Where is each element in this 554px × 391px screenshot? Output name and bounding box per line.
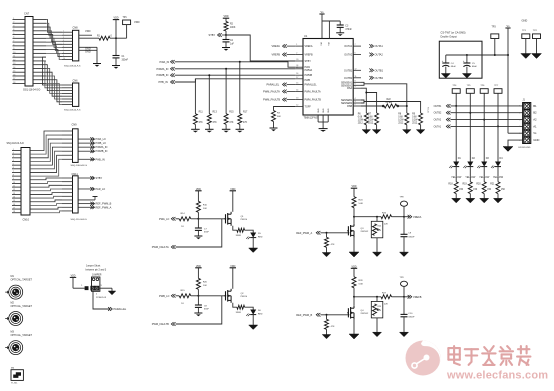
junction gate RC node [197, 295, 199, 297]
ground under C8 [194, 307, 202, 316]
wire drop to R13 [208, 75, 210, 114]
svg-text:REF_PWM_A: REF_PWM_A [296, 231, 312, 235]
svg-text:OPTICAL_TARGET: OPTICAL_TARGET [11, 279, 33, 282]
svg-text:OUTA1: OUTA1 [434, 125, 442, 128]
wire RSA to sense resistors [361, 88, 377, 113]
svg-text:1: 1 [63, 31, 64, 33]
junction at R15 drop [225, 68, 227, 70]
svg-text:OPTICAL_TARGET: OPTICAL_TARGET [11, 334, 33, 337]
svg-text:PARALLEL: PARALLEL [305, 84, 318, 87]
resistor R10 10K [196, 201, 207, 219]
svg-text:17: 17 [13, 78, 15, 80]
svg-text:2: 2 [13, 22, 14, 24]
svg-text:8: 8 [355, 80, 356, 82]
wire R12 to D5 [245, 230, 254, 232]
ground under R21 [494, 194, 503, 203]
svg-text:PARALLEL: PARALLEL [114, 307, 127, 311]
svg-text:0.68: 0.68 [368, 117, 373, 119]
svg-text:5: 5 [355, 86, 356, 88]
svg-text:22K: 22K [384, 303, 388, 305]
net label PHB_IN [159, 80, 175, 84]
test point TP11 GND [521, 30, 531, 58]
wire bundle CN10 to CN9 [30, 131, 62, 176]
svg-text:1: 1 [13, 149, 14, 151]
svg-text:PMOS: PMOS [241, 219, 248, 221]
wire GND J1 pin6 [503, 140, 523, 151]
resistor R20 10K [196, 278, 207, 296]
svg-text:PCB02-03: PCB02-03 [96, 297, 107, 299]
ground under pulldown [322, 247, 331, 256]
resistor R12 330R [236, 228, 245, 237]
svg-text:OUTB1: OUTB1 [434, 106, 442, 108]
svg-text:PWM_FAULTB: PWM_FAULTB [152, 322, 169, 326]
wire bundle CN7 to CN6 [43, 57, 63, 104]
power flag Vs above U1 [319, 11, 340, 21]
U1 right pin stubs and labels [341, 44, 361, 108]
svg-text:A1: A1 [533, 124, 537, 128]
LED D3 YELLOW [477, 157, 490, 179]
svg-text:GND: GND [522, 19, 528, 23]
connector CN9 (SSQ-108-04-F-S) [62, 122, 87, 167]
svg-text:47K: 47K [229, 122, 234, 124]
svg-text:2N7002: 2N7002 [361, 231, 369, 233]
ground under C2 [222, 42, 230, 51]
ground stub at CN11 pin7 [78, 196, 97, 200]
svg-text:VDD: VDD [134, 20, 140, 24]
net label VREFB [404, 295, 422, 299]
svg-text:2: 2 [296, 53, 297, 55]
svg-text:R15: R15 [229, 112, 234, 114]
transistor Q4 2N7002 [347, 297, 369, 320]
net label STBY at CN11 [78, 176, 102, 180]
net label VREFA [404, 215, 422, 219]
resistor pulldown 47K [325, 315, 336, 330]
wire bundle CN10 to CN11 [30, 178, 62, 213]
svg-text:68uF: 68uF [472, 66, 478, 68]
net label PWB_LC at CN9 [78, 141, 106, 145]
wire drop to R11 [194, 79, 196, 114]
test point TP3 Vs [491, 27, 499, 56]
capacitor C9 330nF [401, 217, 416, 239]
connector CN11 (SSQ-110-04-F-S) [62, 172, 87, 221]
power flag VDD above R20 [195, 265, 201, 279]
svg-text:VREFB: VREFB [305, 54, 314, 57]
net label PARALLEL at U1 [267, 83, 296, 87]
ground under C10 [400, 317, 409, 337]
svg-text:CS-TWT (or CA-DM5): CS-TWT (or CA-DM5) [441, 31, 466, 35]
svg-text:REF_PWM_A: REF_PWM_A [96, 205, 112, 209]
svg-text:17: 17 [13, 207, 15, 209]
LED D6 RED [246, 310, 263, 317]
svg-text:22K: 22K [384, 223, 388, 225]
svg-text:PARALLEL: PARALLEL [267, 83, 280, 87]
svg-text:VREFA: VREFA [413, 215, 422, 219]
ground under R19 [466, 194, 475, 203]
svg-text:PWA_LC: PWA_LC [159, 217, 170, 221]
ground under R8 [403, 125, 412, 134]
test point TP6 [480, 85, 488, 93]
net label OUTB2 wire to J1 [434, 111, 523, 115]
svg-text:Double Output: Double Output [441, 34, 458, 38]
net label STBY input [209, 33, 227, 37]
svg-text:PHB_IN: PHB_IN [159, 80, 168, 84]
resistor R17 47K [238, 112, 248, 125]
svg-text:330R: 330R [236, 312, 242, 314]
svg-text:1uF: 1uF [230, 43, 235, 45]
net label PWMB_IN [157, 73, 175, 77]
svg-text:2: 2 [519, 113, 520, 115]
svg-text:PHB_IN: PHB_IN [96, 157, 105, 161]
net label OUTB2 at U1 output [369, 76, 383, 80]
ground under C9 [400, 237, 409, 257]
svg-text:VM: VM [321, 42, 323, 45]
ground under R6 [362, 125, 371, 134]
svg-text:RS-A0: RS-A0 [427, 107, 430, 114]
LED D4 YELLOW [491, 157, 504, 179]
net label PWM_FAULTA at U1 [263, 89, 295, 93]
ground under R13 [205, 124, 214, 132]
svg-text:OUTB2: OUTB2 [375, 76, 384, 80]
svg-text:2512: 2512 [368, 122, 374, 124]
transistor Q2 PMOS [224, 289, 247, 303]
svg-text:5: 5 [519, 133, 520, 135]
connector CN7 (SSQ-118-04-S-D) [13, 12, 47, 92]
svg-text:3: 3 [13, 25, 14, 27]
svg-text:4: 4 [355, 98, 356, 100]
svg-text:TOFF: TOFF [305, 106, 312, 109]
svg-text:VDD: VDD [85, 29, 91, 33]
svg-text:6: 6 [519, 140, 520, 142]
svg-text:1: 1 [519, 106, 520, 108]
ground under R3 [270, 122, 278, 132]
ground under C5 [462, 67, 471, 78]
svg-text:21: 21 [296, 67, 298, 69]
wire to gate node [191, 218, 199, 220]
junction at R13 drop [208, 74, 210, 76]
power flag Vs at supply [505, 25, 510, 133]
capacitor C7 33nF [195, 219, 210, 234]
svg-text:R11: R11 [199, 112, 204, 114]
svg-text:OPTICAL_TARGET: OPTICAL_TARGET [11, 305, 33, 308]
wire drop to R15 [225, 69, 227, 114]
wire PHB_IN to U1 with jog [175, 79, 296, 82]
potentiometer R29 10K [371, 296, 383, 318]
connector J1 terminal block [519, 100, 540, 149]
svg-text:PWM_FAULTA: PWM_FAULTA [263, 89, 280, 93]
svg-text:OUTB2: OUTB2 [344, 77, 353, 80]
svg-text:0.68: 0.68 [398, 117, 403, 119]
svg-text:9: 9 [63, 55, 64, 57]
svg-text:47K: 47K [243, 122, 248, 124]
net label PWA_LC [159, 217, 179, 221]
svg-text:1/2W: 1/2W [398, 119, 404, 121]
LED D5 RED [246, 233, 263, 240]
resistor R20 150 [476, 182, 491, 194]
wire SENSEB pair to R9 [361, 100, 421, 113]
net label OUTA1 wire to J1 [434, 125, 523, 129]
svg-text:PAR_LC: PAR_LC [96, 187, 106, 191]
net label OUTA1 at U1 output [369, 44, 383, 48]
svg-text:7: 7 [13, 40, 14, 42]
box around C4 C5 [439, 41, 482, 78]
ground under pulldown [322, 329, 331, 338]
junction node VREFA [353, 216, 355, 218]
ground under C1 [112, 58, 120, 69]
svg-text:PWMA_IN: PWMA_IN [157, 67, 169, 71]
resistor R13 47K [207, 112, 217, 125]
wire TP5 down to LED column [469, 93, 471, 161]
wire STBY to U1 [226, 35, 295, 61]
resistor R27 22K [381, 293, 404, 306]
svg-text:REF_PWM_B: REF_PWM_B [296, 313, 312, 317]
svg-text:TB6612FNG: TB6612FNG [304, 116, 318, 120]
svg-text:12: 12 [13, 189, 15, 191]
wire PWMB_IN to U1 [175, 74, 296, 76]
svg-text:PWM_FAULTA: PWM_FAULTA [152, 245, 169, 249]
svg-text:20: 20 [296, 59, 298, 61]
svg-text:STBY: STBY [209, 33, 216, 37]
capacitor C5 68uF [463, 54, 478, 68]
svg-text:1/2W: 1/2W [368, 119, 374, 121]
svg-text:VREFB: VREFB [272, 53, 281, 57]
resistor R14 1K [179, 213, 191, 228]
svg-text:R18: R18 [448, 184, 453, 186]
svg-text:7: 7 [355, 44, 356, 46]
watermark text [448, 346, 530, 365]
ground under U1 [319, 122, 328, 132]
svg-text:PWM_FAULTB: PWM_FAULTB [263, 98, 280, 102]
svg-text:14: 14 [13, 196, 15, 198]
wire R13 to D6 [245, 307, 254, 309]
svg-text:5: 5 [13, 164, 14, 166]
wire TP7 down to LED column [497, 93, 499, 161]
svg-text:2: 2 [13, 153, 14, 155]
svg-text:2512: 2512 [412, 122, 418, 124]
net label REF_PWM_A at CN11 [78, 205, 112, 209]
svg-text:16: 16 [13, 204, 15, 206]
svg-text:GND: GND [318, 108, 320, 113]
svg-text:JUMPER: JUMPER [92, 274, 102, 276]
svg-text:13: 13 [13, 193, 15, 195]
svg-text:PWA_IN: PWA_IN [160, 60, 170, 64]
sense resistor R8 0.68 1/2W [398, 113, 409, 125]
transistor Q1 PMOS [224, 212, 247, 226]
wire REF_PWM_B to gate [320, 314, 349, 316]
wire R1 to node [110, 37, 127, 39]
net label PWMA_IN [157, 67, 175, 71]
svg-text:CN6: CN6 [73, 78, 79, 82]
net label VDD at CN8 [79, 29, 92, 35]
svg-text:12: 12 [296, 105, 298, 107]
svg-text:OUTA1: OUTA1 [344, 45, 353, 48]
svg-text:7: 7 [13, 171, 14, 173]
svg-text:VREFA: VREFA [272, 44, 281, 48]
svg-text:CN8: CN8 [73, 26, 79, 30]
wire VDD to R1 [79, 37, 99, 39]
transistor Q3 2N7002 [347, 217, 369, 238]
svg-text:6: 6 [13, 167, 14, 169]
svg-text:R17: R17 [243, 112, 248, 114]
svg-text:SSQ-108-04-F-S: SSQ-108-04-F-S [71, 165, 88, 167]
sense resistor R7 0.68 1/2W [368, 113, 379, 125]
svg-text:3: 3 [519, 119, 520, 121]
svg-text:330nF: 330nF [122, 59, 129, 61]
svg-text:OUTA2: OUTA2 [375, 53, 384, 57]
ground at CN8 GND pins [93, 47, 101, 66]
svg-text:4: 4 [13, 29, 14, 31]
svg-text:PWMA_IN: PWMA_IN [96, 145, 108, 149]
svg-text:STBY: STBY [305, 60, 312, 63]
logo M4 TI silkscreen [11, 368, 23, 385]
svg-text:11: 11 [13, 186, 15, 188]
svg-text:16: 16 [13, 74, 15, 76]
svg-text:PWMA: PWMA [305, 69, 313, 72]
svg-text:R20: R20 [476, 184, 481, 186]
test point TP7 [494, 85, 502, 93]
ground under D6 [249, 314, 258, 329]
svg-text:TI_SIL: TI_SIL [11, 383, 18, 385]
svg-text:10K: 10K [203, 208, 207, 210]
svg-text:6: 6 [13, 37, 14, 39]
svg-text:15: 15 [296, 83, 298, 85]
wire TOFF to R3 [274, 107, 296, 111]
svg-text:4: 4 [519, 126, 520, 128]
ground under R9 [416, 125, 425, 134]
svg-text:PWMB_IN: PWMB_IN [157, 73, 169, 77]
test point TP1 VDD [123, 17, 140, 38]
wire TP4 down to LED column [455, 93, 457, 161]
watermark logo circle [406, 341, 441, 376]
resistor R11 47K [193, 112, 203, 125]
svg-text:SSQ-118-04-S-D: SSQ-118-04-S-D [7, 143, 25, 145]
svg-text:SSQ-118-04-S-D: SSQ-118-04-S-D [23, 90, 41, 92]
test point TP8 [400, 197, 408, 217]
wire D2 to resistor [469, 166, 471, 182]
svg-text:4: 4 [13, 160, 14, 162]
wire PWM_FAULTB to gate [176, 296, 222, 324]
svg-text:R22: R22 [387, 99, 392, 101]
wire node to pot and R27 [354, 296, 381, 298]
svg-text:14: 14 [296, 89, 298, 91]
wire drop to R17 [239, 62, 241, 114]
resistor R24 5.6K [352, 197, 364, 217]
LED D1 YELLOW [449, 157, 462, 179]
svg-text:B1: B1 [533, 104, 537, 108]
svg-text:47K: 47K [199, 122, 204, 124]
connector CN10 (SSQ-118-04-S-D) [7, 143, 31, 222]
power flag VDD above Q1 [230, 188, 236, 212]
svg-text:1: 1 [13, 18, 14, 20]
ground under Q3 [349, 238, 359, 257]
svg-text:PMOS: PMOS [241, 296, 248, 298]
svg-text:17: 17 [296, 77, 298, 79]
wire to gate node [191, 295, 199, 297]
node STBY [225, 34, 227, 36]
ground under R29 [373, 318, 382, 337]
wire node to FET gate [198, 218, 226, 220]
wire D3 to resistor [483, 166, 485, 182]
power flag VDD [113, 17, 119, 39]
svg-text:OUTB1: OUTB1 [375, 68, 384, 72]
U1 left pin stubs and labels [295, 44, 321, 108]
resistor R1 0 [97, 35, 113, 40]
svg-text:18: 18 [13, 211, 15, 213]
svg-text:CN9: CN9 [72, 122, 78, 126]
junction pulldown [326, 232, 328, 234]
junction at R17 drop [239, 61, 241, 63]
svg-text:15: 15 [13, 71, 15, 73]
ground under D5 [249, 237, 258, 252]
optical target M1 [5, 275, 32, 299]
ground under Q4 [349, 320, 359, 339]
svg-text:3: 3 [13, 156, 14, 158]
svg-text:A2: A2 [533, 118, 537, 122]
svg-text:B2: B2 [533, 111, 537, 115]
svg-text:10: 10 [13, 52, 15, 54]
svg-text:R21: R21 [490, 184, 495, 186]
capacitor C1 330nF [113, 38, 129, 61]
optical target M3 [5, 331, 32, 355]
svg-text:3: 3 [355, 101, 356, 103]
svg-text:8: 8 [13, 44, 14, 46]
test point TP9 [400, 277, 408, 297]
net label PWMA_IN at CN9 [78, 145, 107, 149]
svg-text:SSQ-108-04-F-S: SSQ-108-04-F-S [64, 110, 81, 112]
wire SENSEA pair to R8 [361, 82, 407, 113]
svg-text:RED: RED [258, 236, 263, 238]
net label OUTA2 at U1 output [369, 53, 383, 57]
net label PWB_LC [159, 294, 179, 298]
potentiometer R25 10K [371, 216, 383, 238]
svg-text:TP1: TP1 [123, 17, 128, 19]
resistor R15 1K [179, 290, 191, 305]
svg-text:PWMB: PWMB [305, 74, 313, 77]
svg-text:2512: 2512 [358, 122, 364, 124]
node VDD junction [115, 37, 117, 39]
capacitor C3 470nF [337, 21, 353, 31]
svg-text:470nF: 470nF [345, 29, 352, 31]
net label REF_PWM_B at CN11 [78, 202, 112, 206]
resistor R19 150 [463, 182, 478, 194]
capacitor C8 33nF [195, 296, 210, 311]
net label VREFB at U1 [272, 53, 296, 57]
svg-text:9: 9 [355, 83, 356, 85]
wire D1 to resistor [455, 166, 457, 182]
connector CN6 (SSQ-108-04-F-S) [62, 78, 81, 111]
svg-text:13: 13 [13, 63, 15, 65]
ground under R20 [480, 194, 489, 203]
note CS-TWT Double Output [441, 31, 466, 39]
wire node to pot and R26 [354, 216, 381, 218]
svg-text:STBY: STBY [96, 176, 103, 180]
capacitor C10 330nF [401, 297, 416, 319]
junction at TP8 [403, 216, 405, 218]
net label OUTB1 wire to J1 [434, 104, 523, 108]
power flag VDD above R28 [351, 265, 357, 277]
svg-text:68uF: 68uF [451, 66, 457, 68]
wire Vs supply rail [446, 54, 508, 56]
svg-text:CN10: CN10 [23, 217, 30, 221]
ground under R25 [373, 238, 382, 257]
wire jumper pin2 to PARALLEL [93, 291, 127, 311]
svg-text:330nF: 330nF [408, 236, 415, 238]
wire Q1 drain to R12 [233, 226, 237, 230]
resistor R21 150 [490, 182, 505, 194]
net label PWA_IN [160, 60, 175, 64]
svg-text:5: 5 [63, 43, 64, 45]
power flag VDD at jumper [70, 275, 85, 288]
ground under R15 [222, 124, 231, 132]
